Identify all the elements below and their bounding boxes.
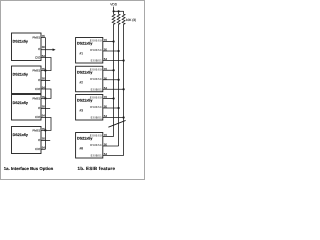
svg-text:C/O: C/O xyxy=(35,56,41,60)
svg-text:DS21x5y: DS21x5y xyxy=(77,42,93,46)
junction dot U7 pin54 xyxy=(123,116,125,118)
wire U7 pin30 xyxy=(103,107,119,109)
wire loop U2 pin54 to U3 pin76 xyxy=(41,89,51,98)
wire U1 pin76 to bus A xyxy=(41,37,45,39)
chip U5 DS21x5y (right column #1) xyxy=(76,38,103,64)
wire U8 pin76 bus end xyxy=(103,136,114,138)
svg-text:FMS1: FMS1 xyxy=(32,69,40,73)
chip U3 DS21x5y (left column #3) xyxy=(12,95,42,121)
junction dot U5 pin54 xyxy=(123,59,125,61)
resistor R1 xyxy=(112,11,115,27)
arrowhead U1 pin30 xyxy=(53,48,56,51)
chip U2 DS21x5y (left column #2) xyxy=(12,66,42,94)
chip U7 DS21x5y (right column #3) xyxy=(76,95,103,121)
wire VDD feed xyxy=(113,7,115,12)
wire U3 pin30 stub xyxy=(41,108,50,110)
junction dot U5 pin30 xyxy=(118,50,120,52)
svg-text:DS21x5y: DS21x5y xyxy=(13,101,29,105)
wire U6 pin54 xyxy=(103,88,124,90)
svg-text:ESIBSC: ESIBSC xyxy=(90,77,102,81)
bus line SC xyxy=(118,27,120,146)
bus line S0 xyxy=(113,27,115,137)
svg-text:FMS1: FMS1 xyxy=(32,97,40,101)
wire U4 pin54 to bus A end xyxy=(41,148,45,150)
wire loop U1 pin54 to U2 pin76 xyxy=(41,58,51,71)
junction dot U7 pin30 xyxy=(118,107,120,109)
wire U6 pin30 xyxy=(103,79,119,81)
junction dot U6 pin30 xyxy=(118,79,120,81)
svg-text:DS21x5y: DS21x5y xyxy=(13,39,29,43)
svg-text:DS21x5y: DS21x5y xyxy=(77,70,93,74)
svg-text:DS21x5y: DS21x5y xyxy=(13,133,29,137)
wire U8 pin30 bus end xyxy=(103,145,119,147)
svg-text:#1: #1 xyxy=(80,52,84,56)
svg-text:C/O: C/O xyxy=(35,87,41,91)
junction dot bus A / U3 pin76 xyxy=(44,97,46,99)
svg-text:10K (3): 10K (3) xyxy=(126,18,136,22)
svg-text:ESIBS1: ESIBS1 xyxy=(91,59,103,63)
resistor R2 xyxy=(117,11,120,27)
svg-text:#3: #3 xyxy=(80,109,84,113)
svg-text:C/O: C/O xyxy=(35,115,41,119)
chip U4 DS21x5y (left column #4) xyxy=(12,127,42,154)
junction dot VDD rail R2 xyxy=(118,10,120,12)
border frame xyxy=(1,1,145,180)
svg-text:54: 54 xyxy=(42,146,46,150)
junction dot VDD rail R1 xyxy=(113,10,115,12)
junction dot U5 pin76 xyxy=(113,40,115,42)
svg-text:54: 54 xyxy=(42,114,46,118)
junction dot U7 pin76 xyxy=(113,97,115,99)
junction dot bus A / U4 pin76 xyxy=(44,129,46,131)
svg-text:ESIBS1: ESIBS1 xyxy=(91,87,103,91)
wire U2 pin30 stub xyxy=(41,80,50,82)
svg-text:C/O: C/O xyxy=(35,147,41,151)
svg-text:ESIBSC: ESIBSC xyxy=(90,105,102,109)
wire VDD rail xyxy=(114,10,124,12)
svg-text:DS21x5y: DS21x5y xyxy=(77,99,93,103)
chip U6 DS21x5y (right column #2) xyxy=(76,66,103,92)
svg-text:FMS1: FMS1 xyxy=(32,129,40,133)
junction dot U6 pin54 xyxy=(123,88,125,90)
svg-text:VDD: VDD xyxy=(110,3,117,7)
wire U1 pin30 output arrow xyxy=(41,49,53,51)
svg-text:ESIBSC: ESIBSC xyxy=(90,143,102,147)
svg-text:1b. ESIB feature: 1b. ESIB feature xyxy=(78,166,116,171)
svg-text:FMS1: FMS1 xyxy=(32,36,40,40)
wire U4 pin30 stub xyxy=(41,140,50,142)
wire U7 pin76 xyxy=(103,98,114,100)
svg-text:ESIBS1: ESIBS1 xyxy=(91,154,103,158)
svg-text:1a. Interface Bus Option: 1a. Interface Bus Option xyxy=(4,166,54,171)
resistor R3 xyxy=(122,11,125,27)
svg-text:DS21x5y: DS21x5y xyxy=(13,72,29,76)
wire U5 pin54 xyxy=(103,60,124,62)
bus line S1 xyxy=(123,27,125,156)
svg-text:30: 30 xyxy=(42,137,46,141)
wire U5 pin76 xyxy=(103,41,114,43)
svg-text:30: 30 xyxy=(42,45,46,49)
bus continuation slash xyxy=(108,120,125,127)
wire U8 pin54 bus end xyxy=(103,155,124,157)
svg-text:#2: #2 xyxy=(80,80,84,84)
svg-text:30: 30 xyxy=(42,105,46,109)
junction dot U6 pin76 xyxy=(113,69,115,71)
wire U7 pin54 xyxy=(103,117,124,119)
svg-text:#8: #8 xyxy=(80,147,84,151)
wire loop U3 pin54 to U4 pin76 xyxy=(41,118,51,131)
bus A vertical (pin76 daisy bus) xyxy=(44,38,46,150)
chip U8 DS21x5y (right column #8, last) xyxy=(76,133,103,159)
svg-text:30: 30 xyxy=(42,77,46,81)
svg-text:DS21x5y: DS21x5y xyxy=(77,137,93,141)
svg-text:ESIBS1: ESIBS1 xyxy=(91,116,103,120)
wire U5 pin30 xyxy=(103,50,119,52)
wire U6 pin76 xyxy=(103,69,114,71)
junction dot bus A / U2 pin76 xyxy=(44,69,46,71)
svg-text:ESIBSC: ESIBSC xyxy=(90,48,102,52)
chip U1 DS21x5y (left column #1) xyxy=(12,33,42,61)
